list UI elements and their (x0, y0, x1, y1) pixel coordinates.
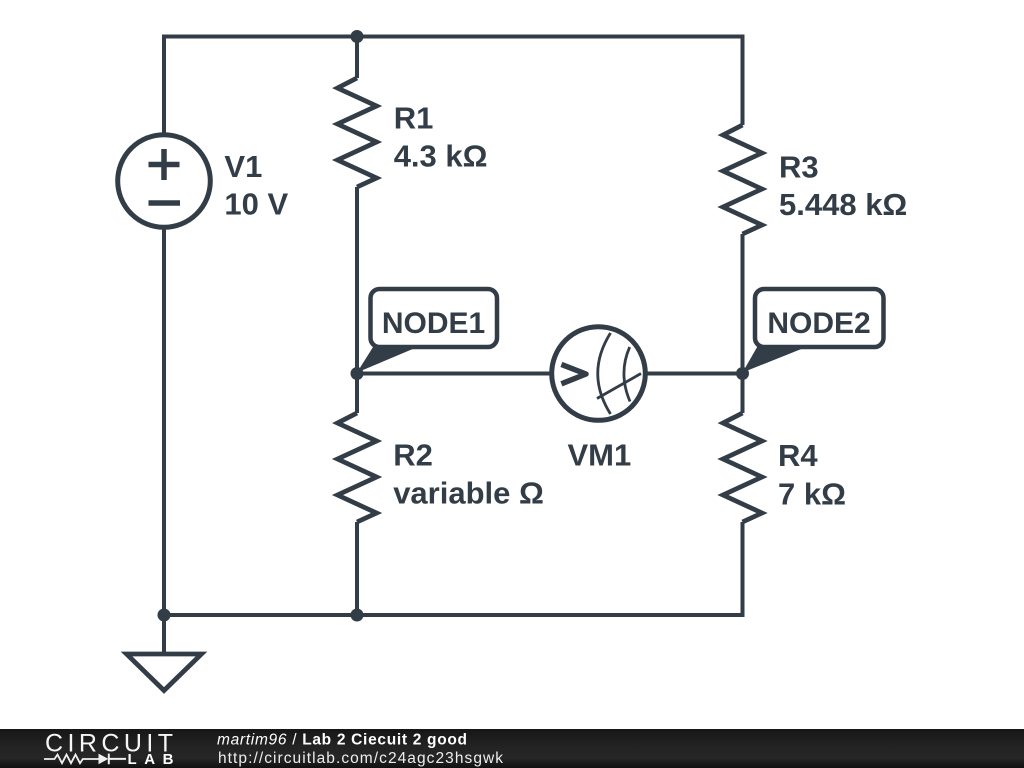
resistor R2 zigzag (338, 413, 377, 522)
logo diode cathode bar and lead (109, 754, 126, 765)
wire from R2 bottom to bottom rail junction (355, 522, 359, 615)
svg-text:R1: R1 (394, 100, 434, 135)
junction dot bottom rail / R2 (351, 609, 364, 622)
wire from R3 bottom to NODE2 junction (741, 234, 745, 374)
node NODE1 bubble box (371, 289, 498, 347)
svg-text:LAB: LAB (128, 751, 174, 768)
resistor R1 zigzag (338, 78, 377, 187)
VM1 gauge arc small (624, 347, 630, 402)
wire from R1 bottom to NODE1 junction (355, 187, 359, 374)
footer bar (0, 729, 1024, 768)
wire from R4 bottom via bottom-right corner along bottom rail to ground junction (164, 522, 743, 615)
VM1 chevron (561, 364, 586, 383)
svg-text:4.3 kΩ: 4.3 kΩ (394, 139, 488, 174)
wire from V1 top via top-left corner to node at R1 top (164, 37, 357, 133)
wire from NODE2 junction to R4 top (741, 374, 745, 414)
svg-text:http://circuitlab.com/c24agc23: http://circuitlab.com/c24agc23hsgwk (218, 750, 503, 767)
wire top rail from junction to top-right corner down to R3 top (357, 37, 743, 126)
svg-text:10 V: 10 V (224, 187, 288, 222)
svg-text:V1: V1 (224, 149, 262, 184)
node NODE2 bubble tail (743, 346, 811, 373)
wire middle horizontal from NODE1 to VM1 left terminal (357, 372, 551, 376)
svg-text:5.448 kΩ: 5.448 kΩ (779, 187, 907, 222)
junction dot NODE1 (351, 367, 364, 380)
V1 minus sign (149, 200, 181, 206)
node NODE1 bubble tail (357, 346, 421, 373)
resistor R3 zigzag (723, 125, 762, 234)
junction dot at top rail / R1 (351, 30, 364, 43)
svg-text:NODE2: NODE2 (767, 307, 870, 340)
logo diode triangle (99, 754, 109, 765)
wire from V1 bottom to ground junction (162, 230, 166, 616)
svg-text:variable Ω: variable Ω (393, 476, 544, 511)
svg-text:7 kΩ: 7 kΩ (778, 477, 846, 512)
wire ground stem (162, 615, 166, 653)
wire from NODE1 junction to R2 top (355, 374, 359, 414)
junction dot NODE2 (736, 367, 749, 380)
V1 plus sign (149, 149, 180, 180)
resistor R4 zigzag (723, 413, 762, 522)
node NODE2 bubble box (755, 289, 884, 347)
voltmeter VM1 circle (552, 327, 646, 421)
VM1 needle (597, 374, 641, 399)
logo resistor squiggle (44, 755, 99, 764)
svg-text:NODE1: NODE1 (382, 307, 485, 340)
junction dot bottom rail / ground (158, 609, 171, 622)
ground symbol triangle (127, 654, 202, 691)
wire stub from top junction down to R1 (355, 37, 359, 79)
svg-text:martim96 / Lab 2 Ciecuit 2 goo: martim96 / Lab 2 Ciecuit 2 good (217, 732, 467, 749)
voltage source V1 circle (118, 135, 211, 228)
wire middle horizontal from VM1 right terminal to NODE2 (646, 372, 743, 376)
svg-text:R4: R4 (778, 438, 818, 473)
svg-text:R2: R2 (393, 437, 433, 472)
VM1 gauge arc large (598, 333, 611, 414)
svg-text:R3: R3 (779, 149, 819, 184)
svg-text:VM1: VM1 (568, 437, 632, 472)
